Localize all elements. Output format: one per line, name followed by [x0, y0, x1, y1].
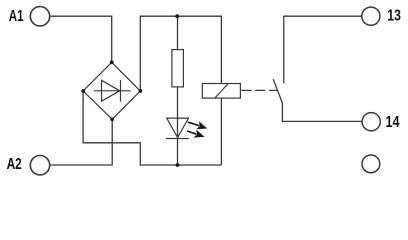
wire bridge plus to top rail: [140, 16, 221, 91]
junction node bridge left: [81, 89, 85, 93]
terminal 14: [362, 113, 380, 131]
resistor R1: [172, 50, 184, 87]
relay coil K1: [202, 84, 240, 99]
svg-text:A2: A2: [7, 156, 22, 173]
LED arrow 1: [188, 121, 208, 129]
junction node bottom rail: [176, 163, 180, 167]
junction node bridge top: [110, 60, 114, 64]
diode D1 triangle: [102, 80, 120, 101]
diode D1 cathode bar: [120, 80, 122, 102]
wire A1 to bridge top: [50, 16, 112, 62]
contact blade: [273, 79, 362, 121]
actuator dashed link: [242, 89, 279, 91]
terminal A2: [30, 156, 49, 175]
wire relay bottom to rail: [220, 98, 222, 165]
wire resistor top: [177, 16, 179, 49]
bridge rectifier diamond: [83, 62, 140, 119]
LED arrow 2: [187, 130, 205, 138]
wire terminal 13: [284, 16, 362, 83]
wire resistor to LED to bottom rail: [177, 87, 179, 165]
LED triangle: [167, 118, 189, 137]
diode D1 lead: [94, 90, 131, 92]
spare terminal: [362, 155, 380, 173]
wire A2 to bridge bottom: [50, 119, 112, 165]
LED cathode bar: [166, 138, 189, 140]
terminal 13: [362, 7, 380, 25]
terminal A1: [30, 7, 49, 26]
svg-text:14: 14: [386, 114, 400, 131]
svg-text:13: 13: [387, 8, 401, 25]
junction node bridge right: [138, 89, 142, 93]
junction node bridge bottom: [110, 117, 114, 121]
wire bridge minus to bottom rail: [83, 91, 221, 165]
relay coil diagonal: [215, 84, 228, 99]
svg-text:A1: A1: [9, 8, 24, 25]
junction node top rail: [175, 14, 179, 18]
